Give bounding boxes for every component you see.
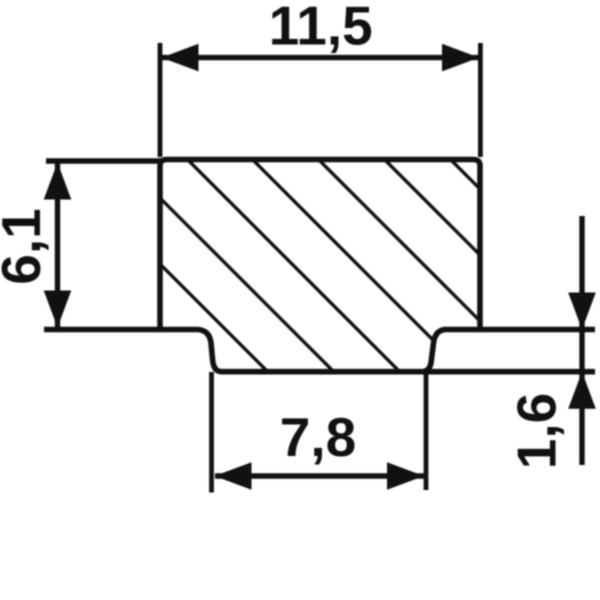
svg-text:11,5: 11,5 <box>269 0 373 57</box>
svg-text:7,8: 7,8 <box>280 406 356 468</box>
svg-text:6,1: 6,1 <box>0 208 52 284</box>
svg-text:1,6: 1,6 <box>506 393 568 469</box>
